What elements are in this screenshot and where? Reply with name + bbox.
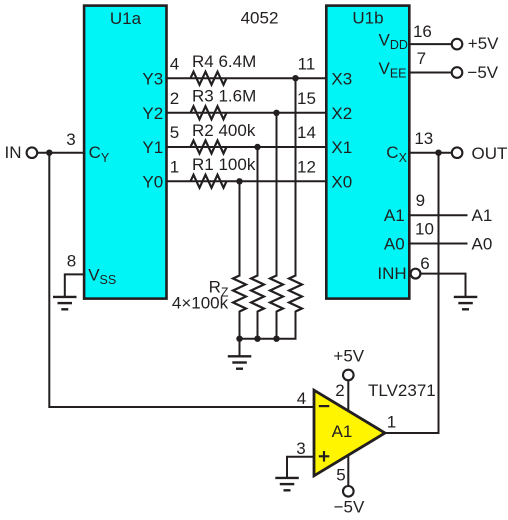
ground below RZ bank — [228, 356, 252, 368]
svg-text:4052: 4052 — [241, 9, 279, 28]
wire RZ bottom bus — [240, 311, 296, 339]
terminal op-amp -5V circle — [343, 486, 354, 497]
wire feedback from IN node down left side — [49, 153, 315, 407]
svg-text:2: 2 — [335, 381, 344, 400]
wire Y1 row U1a to U1b X1 — [167, 146, 328, 148]
svg-text:Y0: Y0 — [142, 173, 163, 192]
svg-text:5: 5 — [336, 466, 345, 485]
svg-text:+5V: +5V — [468, 34, 499, 53]
wire RZ column 1 from Y0 row down — [239, 181, 241, 276]
svg-text:OUT: OUT — [472, 144, 508, 163]
svg-text:R1 100k: R1 100k — [192, 155, 256, 174]
resistor RZ-2 vertical — [251, 276, 264, 312]
ground at op-amp pin 3 — [275, 478, 299, 490]
resistor RZ-3 vertical — [270, 276, 283, 312]
svg-text:4: 4 — [170, 54, 179, 73]
terminal op-amp +5V circle — [343, 370, 354, 381]
wire INH pin 6 to ground — [420, 274, 466, 297]
wire Y2 row U1a to U1b X2 — [167, 112, 328, 114]
svg-text:A0: A0 — [384, 235, 405, 254]
wire op-amp -5V supply pin 5 — [347, 453, 349, 486]
op-amp A1 triangle — [314, 390, 385, 476]
node X1 junction dot — [254, 144, 260, 150]
ground below VSS — [53, 297, 77, 309]
svg-text:U1b: U1b — [352, 9, 383, 28]
wire VSS pin 8 to ground — [65, 274, 86, 296]
node RZ bus dot 2 — [254, 336, 260, 342]
svg-text:11: 11 — [298, 54, 316, 73]
svg-text:13: 13 — [414, 129, 433, 148]
svg-text:U1a: U1a — [110, 9, 142, 28]
svg-text:−5V: −5V — [467, 63, 498, 82]
svg-text:4×100k: 4×100k — [172, 294, 229, 313]
svg-text:X3: X3 — [331, 69, 352, 88]
svg-text:INH: INH — [377, 264, 406, 283]
svg-text:16: 16 — [413, 22, 432, 41]
wire RZ column 2 from Y1 row down — [257, 147, 259, 277]
resistor R4 6.4M — [191, 72, 227, 85]
svg-text:X2: X2 — [331, 104, 352, 123]
terminal -5V circle — [452, 67, 463, 78]
svg-text:15: 15 — [297, 89, 316, 108]
wire RZ bus to ground — [239, 339, 241, 356]
node X0 junction dot — [236, 178, 242, 184]
svg-text:3: 3 — [66, 130, 75, 149]
svg-text:9: 9 — [416, 191, 425, 210]
svg-text:Y3: Y3 — [142, 69, 163, 88]
terminal OUT circle — [452, 147, 463, 158]
wire VEE pin 7 to -5V terminal — [409, 72, 452, 74]
svg-text:1: 1 — [170, 157, 179, 176]
wire A0 pin 10 stub — [409, 243, 467, 245]
resistor RZ-4 vertical — [289, 276, 302, 312]
resistor R2 400k — [191, 141, 227, 154]
svg-text:R4 6.4M: R4 6.4M — [192, 52, 256, 71]
svg-text:IN: IN — [5, 143, 22, 162]
wire CX pin 13 to OUT terminal — [409, 152, 452, 154]
wire A1 pin 9 stub — [409, 214, 467, 216]
svg-text:5: 5 — [170, 123, 179, 142]
svg-text:8: 8 — [67, 252, 76, 271]
svg-text:A1: A1 — [332, 422, 353, 441]
svg-text:14: 14 — [297, 123, 316, 142]
svg-text:3: 3 — [296, 439, 305, 458]
resistor R3 1.6M — [191, 106, 227, 119]
wire Y0 row U1a to U1b X0 — [167, 180, 328, 182]
node X2 junction dot — [273, 110, 279, 116]
wire IN to CY pin 3 — [37, 152, 85, 154]
op-amp inverting input minus mark — [319, 405, 330, 407]
wire feedback from OUT node down to op-amp output — [385, 153, 439, 433]
svg-text:Y1: Y1 — [142, 138, 163, 157]
node X3 junction dot — [292, 75, 298, 81]
svg-text:12: 12 — [297, 157, 316, 176]
svg-text:R2 400k: R2 400k — [192, 121, 256, 140]
wire Y3 row U1a to U1b X3 — [167, 77, 328, 79]
svg-text:1: 1 — [387, 412, 396, 431]
svg-text:Y2: Y2 — [142, 104, 163, 123]
wire RZ column 3 from Y2 row down — [276, 113, 278, 277]
svg-text:A1: A1 — [472, 206, 493, 225]
svg-text:+5V: +5V — [333, 346, 364, 365]
ground below INH — [454, 297, 478, 309]
wire op-amp pin 3 to ground — [287, 457, 315, 478]
terminal +5V circle — [452, 39, 463, 50]
svg-text:A1: A1 — [384, 206, 405, 225]
svg-text:4: 4 — [297, 389, 306, 408]
svg-text:2: 2 — [170, 89, 179, 108]
svg-text:−5V: −5V — [334, 498, 365, 517]
wire VDD pin 16 to +5V terminal — [409, 43, 452, 45]
svg-text:TLV2371: TLV2371 — [368, 381, 436, 400]
op-amp non-inverting input plus mark — [319, 451, 330, 462]
IC U1b body (4052 right half) — [326, 6, 409, 299]
svg-text:A0: A0 — [472, 235, 493, 254]
svg-text:7: 7 — [417, 49, 426, 68]
node RZ bus dot 1 — [236, 336, 242, 342]
node IN junction dot — [46, 150, 52, 156]
resistor RZ-1 vertical — [233, 276, 246, 312]
INH inversion bubble — [411, 269, 421, 279]
terminal IN circle — [27, 147, 38, 158]
wire RZ column 4 from Y3 row down — [295, 78, 297, 276]
resistor R1 100k — [191, 175, 227, 188]
svg-text:6: 6 — [420, 254, 429, 273]
svg-text:X0: X0 — [331, 173, 352, 192]
svg-text:R3 1.6M: R3 1.6M — [192, 87, 256, 106]
node OUT junction dot — [435, 150, 441, 156]
wire op-amp +5V supply pin 2 — [347, 380, 349, 413]
svg-text:10: 10 — [415, 219, 434, 238]
svg-text:X1: X1 — [331, 138, 352, 157]
node RZ bus dot 3 — [273, 336, 279, 342]
IC U1a body (4052 left half) — [84, 6, 166, 299]
